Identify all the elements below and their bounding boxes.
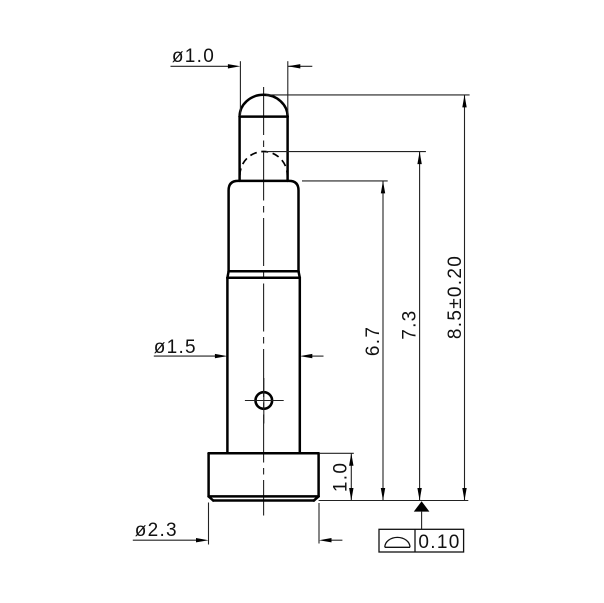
dimension o1.0 xyxy=(171,61,313,116)
crimp flare left xyxy=(227,271,228,278)
svg-text:6.7: 6.7 xyxy=(363,326,384,356)
crimp line xyxy=(227,277,299,280)
plunger dome tip xyxy=(240,95,288,181)
svg-text:8.5±0.20: 8.5±0.20 xyxy=(445,255,466,339)
svg-text:7.3: 7.3 xyxy=(400,309,421,339)
hole crosshair xyxy=(245,378,284,424)
svg-text:ø1.5: ø1.5 xyxy=(154,337,197,358)
centerline (vertical axis) xyxy=(263,87,265,516)
dimension 8.5±0.20 xyxy=(266,95,470,501)
dimension 1.0 (flange height) xyxy=(319,453,354,500)
barrel bottom line xyxy=(229,270,299,273)
leader xyxy=(421,512,423,530)
feature control frame xyxy=(379,529,464,552)
dome base line xyxy=(240,115,288,118)
extension lines xyxy=(239,61,241,116)
dimension 7.3 xyxy=(266,152,426,501)
flange bottom line xyxy=(213,499,314,502)
barrel (upper body with rounded shoulders) xyxy=(227,181,299,453)
crimp flare right xyxy=(299,271,300,278)
dimension o1.5 xyxy=(154,355,324,357)
dimension 6.7 xyxy=(302,181,388,501)
profile of surface symbol xyxy=(385,546,410,548)
extension lines xyxy=(208,503,210,545)
plunger sides xyxy=(238,117,241,181)
hole xyxy=(255,392,272,409)
bottom reference extension line xyxy=(319,500,469,502)
chamfer right xyxy=(314,496,319,500)
chamfer edge line xyxy=(209,495,319,498)
svg-text:ø2.3: ø2.3 xyxy=(135,520,178,541)
hidden ball arc (dashed) xyxy=(240,152,287,176)
chamfer left xyxy=(209,496,214,500)
tube sides xyxy=(226,278,229,454)
flange xyxy=(209,453,319,500)
svg-text:1.0: 1.0 xyxy=(331,462,352,492)
svg-text:ø1.0: ø1.0 xyxy=(172,46,215,67)
datum triangle xyxy=(414,501,430,511)
dimension o2.3 xyxy=(133,503,343,545)
svg-text:0.10: 0.10 xyxy=(418,532,460,553)
